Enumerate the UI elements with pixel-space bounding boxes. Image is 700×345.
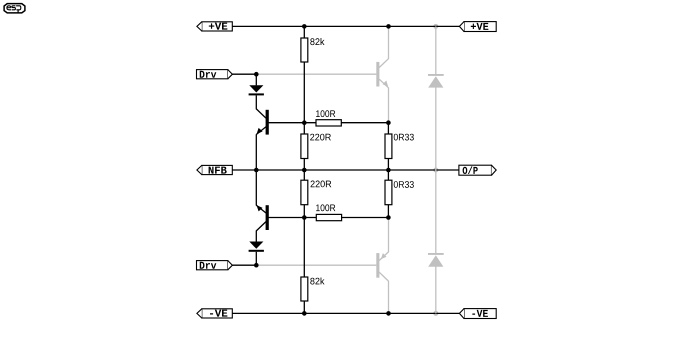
transistor Q2 bottom driver [256, 170, 269, 242]
port tag Drv top [197, 70, 233, 79]
transistor Q1 top driver [256, 95, 269, 170]
port tag -VE left [197, 309, 232, 318]
wire NFB / O/P rail [233, 169, 459, 171]
transistor Q3 top output (greyed) [376, 26, 388, 122]
junction dot Drv top [254, 72, 259, 77]
junction dot -VE/D4 (grey) [433, 311, 438, 316]
port tag +VE left [197, 22, 232, 31]
wire base row top [266, 122, 388, 124]
wire Drv bottom [232, 264, 256, 266]
wire resistor chain x=304 bottom [303, 170, 305, 313]
junction dot base row top x=388 [386, 120, 391, 125]
junction dot NFB/D3-D4 (grey) [433, 168, 438, 173]
junction dot -VE/82k [302, 311, 307, 316]
junction dot Drv bottom [254, 263, 259, 268]
junction dot NFB/220R [302, 168, 307, 173]
junction dot NFB/Q1 emitter [254, 168, 259, 173]
wire -VE rail [232, 312, 459, 314]
wire 0R33 column top [387, 123, 389, 170]
junction dot base row top x=304 [302, 120, 307, 125]
resistor 100R bottom [316, 204, 341, 220]
wire grey base bottom [256, 264, 376, 266]
resistor 82k bottom [301, 277, 325, 301]
wire +VE rail [232, 25, 459, 27]
diode D1 top (Drv to Q1) [249, 74, 264, 95]
port tag Drv bottom [197, 261, 233, 270]
transistor Q4 bottom output (greyed) [376, 218, 388, 314]
junction dot base row bottom x=304 [302, 215, 307, 220]
diode D3 top clamp (greyed) [428, 26, 444, 170]
junction dot +VE/82k [302, 24, 307, 29]
diode D2 bottom (Q2 to Drv) [249, 242, 264, 266]
wire grey base top [256, 73, 376, 75]
junction dot NFB/0R33 [386, 168, 391, 173]
port tag NFB [197, 165, 232, 174]
wire base row bottom [266, 217, 388, 219]
junction dot -VE/Q4 collector [386, 311, 391, 316]
junction dot +VE/Q3 collector [386, 24, 391, 29]
junction dot +VE/D3 (grey) [433, 24, 438, 29]
wire Drv top [232, 73, 256, 75]
junction dot base row bottom x=388 [386, 215, 391, 220]
resistor 220R bottom [301, 180, 331, 205]
diode D4 bottom clamp (greyed) [428, 170, 444, 313]
port tag -VE right [459, 309, 496, 319]
port tag O/P [459, 165, 496, 175]
resistor 100R top [316, 110, 341, 126]
resistor 220R top [301, 134, 331, 159]
resistor 82k top [301, 38, 325, 62]
port tag +VE right [459, 22, 496, 32]
resistor 0R33 bottom [385, 180, 414, 205]
resistor 0R33 top [385, 134, 414, 159]
ESP logo [4, 4, 25, 13]
wire 0R33 column bottom [387, 170, 389, 218]
wire resistor chain x=304 top [303, 26, 305, 170]
